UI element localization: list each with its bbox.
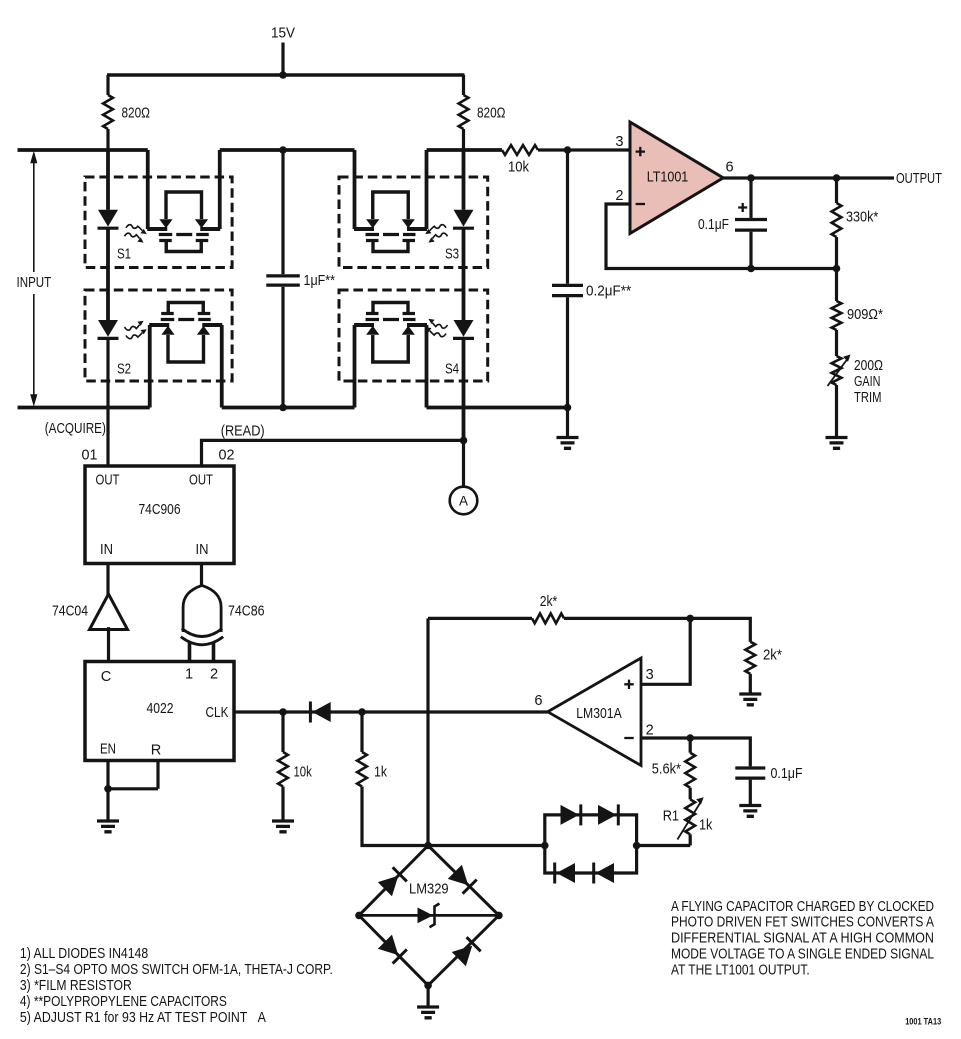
wire reference column: [426, 618, 429, 845]
label LM329: [409, 881, 449, 897]
svg-text:2: 2: [615, 188, 623, 204]
switch S4 enclosure (dashed): [339, 290, 488, 381]
svg-text:6: 6: [534, 693, 542, 709]
wire S3 LED column: [462, 150, 466, 320]
junction feedback / 0.1uF: [747, 265, 755, 273]
pin 3 label LM301A: [646, 667, 654, 683]
svg-text:2k*: 2k*: [540, 594, 558, 610]
pin label 2: [210, 666, 218, 682]
svg-text:5.6k*: 5.6k*: [652, 761, 681, 777]
junction EN ground node: [104, 785, 112, 793]
diode bridge top-right: [448, 865, 477, 894]
label LM301A: [576, 706, 622, 722]
wire R1 to diode pair: [637, 844, 691, 847]
pin label IN left: [100, 542, 113, 558]
svg-text:1) ALL DIODES IN4148: 1) ALL DIODES IN4148: [20, 946, 148, 962]
ground below gain trim: [826, 438, 848, 449]
svg-text:1001 TA13: 1001 TA13: [905, 1016, 941, 1026]
label R1 1k: [699, 817, 713, 833]
wire top line to 10k: [427, 148, 503, 152]
pin 6 label LM301A: [534, 693, 542, 709]
pin 6 label LT1001: [725, 159, 733, 175]
diode S1 LED: [98, 210, 119, 228]
svg-text:3) *FILM RESISTOR: 3) *FILM RESISTOR: [20, 978, 132, 994]
svg-text:10k: 10k: [508, 160, 530, 176]
diode zener LM329: [418, 904, 440, 928]
junction bridge left: [355, 912, 363, 920]
svg-text:S2: S2: [117, 362, 131, 378]
svg-text:IN: IN: [196, 542, 209, 558]
label 909Ω*: [847, 307, 883, 323]
svg-text:909Ω*: 909Ω*: [847, 307, 883, 323]
label 1uF**: [304, 273, 336, 289]
svg-text:820Ω: 820Ω: [122, 106, 151, 122]
svg-text:2: 2: [646, 722, 654, 738]
resistor 330k* body: [832, 178, 842, 269]
wire acquire column: [106, 338, 109, 466]
transistor S1 photo-FET: [147, 192, 220, 252]
label 1k: [374, 764, 388, 780]
wire S2 right terminal: [220, 325, 224, 408]
label S1: [117, 247, 131, 263]
svg-text:OUT: OUT: [96, 473, 120, 489]
pin label IN right: [196, 542, 209, 558]
label S4: [445, 362, 459, 378]
label LT1001: [647, 170, 689, 186]
IC U 74C906 box: [85, 466, 234, 564]
junction 1uF top: [279, 146, 287, 154]
svg-text:820Ω: 820Ω: [477, 106, 506, 122]
wire EN-R tie: [108, 761, 158, 789]
junction diode pair right: [633, 842, 641, 850]
capacitor C 1uF body: [266, 150, 300, 408]
svg-text:OUTPUT: OUTPUT: [896, 171, 942, 187]
wire S4 right terminal: [425, 325, 429, 408]
wire 0.2uF to ground: [566, 408, 569, 438]
wire diode pair to bridge: [428, 844, 545, 847]
wire bottom segment right: [427, 406, 568, 410]
junction output / 0.1uF: [747, 174, 755, 182]
wire pin2 line: [641, 738, 750, 766]
wire 2k to corner: [564, 618, 750, 641]
svg-text:PHOTO DRIVEN FET SWITCHES CON: PHOTO DRIVEN FET SWITCHES CONVERTS A: [671, 915, 934, 931]
pin label CLK: [206, 705, 229, 721]
label 330k*: [846, 210, 879, 226]
svg-text:74C04: 74C04: [52, 604, 88, 620]
diode pair bottom A: [555, 863, 575, 884]
label 200Ω GAIN TRIM: [854, 358, 883, 406]
wire 15V stub: [281, 43, 284, 76]
diode bridge bottom-left: [378, 935, 407, 964]
junction bridge right: [495, 912, 503, 920]
label 74C86: [228, 604, 265, 620]
svg-text:C: C: [101, 669, 112, 685]
node test point A: [450, 487, 478, 515]
ground below 0.2uF: [557, 438, 579, 449]
label 820Ω right: [477, 106, 506, 122]
capacitor C 0.1uF int body: [735, 768, 765, 805]
label 0.1uF output: [698, 217, 729, 233]
light arrows S1: [125, 225, 147, 243]
pin 2 label LT1001: [615, 188, 623, 204]
pin label OUT left: [96, 473, 120, 489]
label 74C906: [139, 502, 181, 518]
wire zener cross: [359, 914, 499, 917]
svg-text:01: 01: [82, 447, 98, 463]
wire diode pair loop: [545, 815, 637, 873]
label 0.1uF int: [771, 766, 803, 782]
svg-text:LM301A: LM301A: [576, 706, 622, 722]
wire input bottom rail: [18, 406, 150, 410]
wire pin3 to 2k: [641, 618, 690, 684]
label 2k* shunt: [763, 648, 782, 664]
svg-text:5) ADJUST R1 for 93 Hz AT TEST: 5) ADJUST R1 for 93 Hz AT TEST POINT A: [20, 1010, 266, 1026]
wire LT1001 feedback: [606, 204, 837, 269]
diode pair bottom B: [594, 863, 614, 884]
pin label EN: [100, 741, 116, 757]
junction pin2 / 5.6k: [686, 734, 694, 742]
label 820Ω left: [122, 106, 151, 122]
svg-text:4022: 4022: [147, 701, 174, 717]
wire LT1001 output: [723, 176, 894, 179]
label INPUT: [17, 275, 52, 291]
resistor 820Ω left body: [103, 75, 113, 150]
diode S3 LED: [453, 210, 474, 228]
svg-text:4) **POLYPROPYLENE CAPACITORS: 4) **POLYPROPYLENE CAPACITORS: [20, 994, 227, 1010]
pin label R: [151, 743, 162, 759]
svg-text:74C906: 74C906: [139, 502, 181, 518]
label R1: [663, 808, 679, 824]
notes list: [20, 946, 333, 1026]
wire 15V rail: [107, 73, 465, 77]
wire 2k feedback top: [428, 617, 532, 620]
svg-text:S4: S4: [445, 362, 459, 378]
IC U 4022 box: [85, 662, 234, 761]
plus sign 0.1uF output: [738, 203, 747, 212]
svg-text:2) S1–S4 OPTO MOS SWITCH OFM-1: 2) S1–S4 OPTO MOS SWITCH OFM-1A, THETA-J…: [20, 962, 333, 978]
svg-text:(READ): (READ): [221, 423, 265, 439]
minus sign LT1001: [636, 203, 645, 205]
light arrows S2: [125, 321, 147, 339]
label 0.2uF**: [586, 284, 631, 300]
junction bridge bottom: [424, 982, 432, 990]
junction CLK / 1k: [358, 708, 366, 716]
svg-text:330k*: 330k*: [846, 210, 879, 226]
svg-text:CLK: CLK: [206, 705, 229, 721]
switch S1 enclosure (dashed): [85, 177, 232, 268]
svg-text:2: 2: [210, 666, 218, 682]
label 74C04: [52, 604, 88, 620]
label 01: [82, 447, 98, 463]
svg-text:(ACQUIRE): (ACQUIRE): [45, 421, 106, 437]
plus sign LM301A: [624, 680, 633, 689]
resistor 909Ω* body: [832, 269, 842, 357]
svg-text:LT1001: LT1001: [647, 170, 689, 186]
op-amp U LM301A: [548, 658, 641, 766]
ground below bridge: [417, 1007, 439, 1018]
wire to test point A: [462, 440, 465, 486]
svg-text:0.2μF**: 0.2μF**: [586, 284, 631, 300]
label 5.6k*: [652, 761, 681, 777]
minus sign LM301A: [624, 737, 633, 739]
svg-text:DIFFERENTIAL SIGNAL AT A HIGH: DIFFERENTIAL SIGNAL AT A HIGH COMMON: [671, 931, 934, 947]
wire EN to ground: [106, 789, 109, 821]
label 10k input: [508, 160, 530, 176]
ground below 10k: [272, 821, 294, 832]
svg-text:1: 1: [185, 666, 193, 682]
capacitor C 0.2uF body: [552, 150, 583, 408]
wire S3 left terminal: [353, 150, 357, 229]
svg-text:INPUT: INPUT: [17, 275, 52, 291]
diode clock steering: [310, 702, 330, 723]
label 02: [219, 447, 235, 463]
node INPUT span arrow: [30, 151, 37, 407]
wire S3 right terminal: [425, 150, 429, 229]
wire input top rail: [18, 148, 148, 152]
plus sign LT1001: [636, 147, 645, 156]
svg-text:15V: 15V: [271, 26, 295, 42]
diode bridge bottom-right: [452, 937, 481, 966]
label 15V supply: [271, 26, 295, 42]
wire S1 right terminal: [218, 150, 222, 229]
wire inverter to 4022 C: [107, 627, 110, 661]
pin label OUT right: [189, 473, 213, 489]
switch S3 enclosure (dashed): [339, 177, 488, 268]
junction diode pair left: [541, 842, 549, 850]
label 10k pulldown: [294, 764, 313, 780]
diode S4 LED: [453, 320, 474, 338]
transistor S4 photo-FET: [354, 303, 427, 363]
resistor 5.6k* body: [685, 738, 695, 799]
svg-text:LM329: LM329: [409, 881, 449, 897]
wire S2 left terminal: [148, 325, 152, 408]
svg-text:0.1μF: 0.1μF: [698, 217, 729, 233]
svg-text:IN: IN: [100, 542, 113, 558]
wire S1 LED column: [106, 150, 110, 320]
svg-text:3: 3: [646, 667, 654, 683]
svg-text:1k: 1k: [699, 817, 713, 833]
svg-text:A FLYING CAPACITOR CHARGED BY: A FLYING CAPACITOR CHARGED BY CLOCKED: [671, 899, 934, 915]
svg-text:1μF**: 1μF**: [304, 273, 336, 289]
ground below 4022: [97, 821, 119, 832]
diode bridge top-left: [378, 867, 407, 896]
switch S2 enclosure (dashed): [85, 290, 232, 381]
svg-text:A: A: [459, 494, 468, 509]
light arrows S4: [425, 319, 447, 337]
svg-text:6: 6: [725, 159, 733, 175]
transistor S2 photo-FET: [149, 303, 222, 363]
junction 0.2uF tap: [564, 146, 572, 154]
label 2k* feedback: [540, 594, 558, 610]
pin label 1: [185, 666, 193, 682]
svg-text:MODE VOLTAGE TO A SINGLE ENDED: MODE VOLTAGE TO A SINGLE ENDED SIGNAL: [671, 947, 934, 963]
label (READ): [221, 423, 265, 439]
svg-text:EN: EN: [100, 741, 116, 757]
svg-text:TRIM: TRIM: [854, 390, 882, 406]
diode pair top A: [561, 804, 581, 825]
wire flying-cap bottom segment: [222, 406, 355, 410]
junction bridge top: [424, 842, 432, 850]
wire flying-cap top segment: [220, 148, 355, 152]
wire bridge diamond: [359, 846, 499, 986]
wire read line: [202, 440, 464, 466]
wire xor input 2: [212, 642, 216, 662]
wire CLK line: [234, 710, 548, 713]
wire S1 left terminal: [146, 150, 150, 229]
svg-text:0.1μF: 0.1μF: [771, 766, 803, 782]
capacitor C 0.1uF output body: [735, 178, 767, 269]
junction feedback / 330k / 909: [833, 265, 841, 273]
svg-text:S3: S3: [445, 247, 459, 263]
resistor 10k pulldown body: [278, 712, 288, 821]
resistor 2k* shunt body: [745, 642, 755, 694]
op-amp U LT1001: [630, 122, 723, 234]
svg-text:200Ω: 200Ω: [854, 358, 883, 374]
wire bridge to ground: [427, 985, 430, 1006]
label 4022: [147, 701, 174, 717]
svg-text:3: 3: [615, 134, 623, 150]
svg-text:02: 02: [219, 447, 235, 463]
svg-text:2k*: 2k*: [763, 648, 782, 664]
junction 1uF bottom: [279, 404, 287, 412]
pin 3 label LT1001: [615, 134, 623, 150]
light arrows S3: [425, 225, 447, 243]
svg-text:10k: 10k: [294, 764, 313, 780]
wire 74C906 IN-left to inverter: [106, 564, 109, 596]
svg-text:74C86: 74C86: [228, 604, 265, 620]
gate 74C86 xor: [181, 585, 223, 644]
pin label C: [101, 669, 112, 685]
junction 15V rail / 1uF column: [279, 71, 287, 79]
resistor 2k* feedback body: [532, 614, 564, 624]
pin 2 label LM301A: [646, 722, 654, 738]
resistor 820Ω right body: [459, 75, 469, 150]
svg-text:S1: S1: [117, 247, 131, 263]
wire xor input 1: [188, 642, 192, 662]
wire S4 left terminal: [353, 325, 357, 408]
junction read / test point: [460, 437, 468, 445]
resistor 1k body: [357, 712, 428, 846]
wire read column: [462, 338, 466, 440]
gate 74C04 inverter: [90, 594, 128, 630]
svg-text:AT THE LT1001 OUTPUT.: AT THE LT1001 OUTPUT.: [671, 962, 810, 978]
junction CLK / 10k: [279, 708, 287, 716]
svg-text:1k: 1k: [374, 764, 388, 780]
svg-text:R: R: [151, 743, 162, 759]
svg-text:OUT: OUT: [189, 473, 213, 489]
ground below 2k shunt: [739, 694, 761, 705]
ground below 0.1uF int: [739, 806, 761, 817]
label (ACQUIRE): [45, 421, 106, 437]
wire 74C906 IN-right to xor: [200, 564, 203, 587]
potentiometer 200Ω gain trim body: [828, 355, 851, 438]
diode pair top B: [598, 804, 618, 825]
label OUTPUT: [896, 171, 942, 187]
label S2: [117, 362, 131, 378]
label 1001 TA13: [905, 1016, 941, 1026]
junction output / 330k: [833, 174, 841, 182]
junction 0.2uF ground node: [564, 404, 572, 412]
transistor S3 photo-FET: [354, 192, 427, 252]
svg-text:R1: R1: [663, 808, 679, 824]
wire 10k to op amp: [538, 148, 630, 151]
potentiometer R1 1k body: [677, 797, 703, 845]
resistor 10k input body: [502, 145, 538, 155]
caption paragraph: [671, 899, 934, 979]
diode S2 LED: [98, 320, 119, 338]
label S3: [445, 247, 459, 263]
svg-text:GAIN: GAIN: [854, 374, 881, 390]
junction 2k / pin3: [686, 615, 694, 623]
